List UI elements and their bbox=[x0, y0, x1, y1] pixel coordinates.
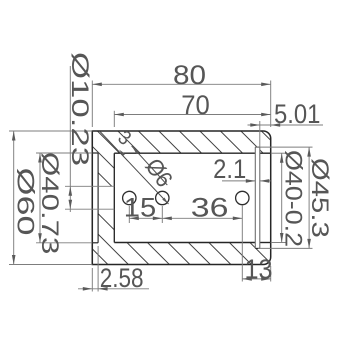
svg-text:70: 70 bbox=[181, 89, 210, 120]
dim line 2.58 bbox=[78, 288, 149, 290]
arrow 5.01 right (outside) bbox=[271, 123, 281, 127]
leader arrow lower end bbox=[162, 198, 168, 205]
dim line D45.3 bbox=[308, 147, 310, 248]
svg-text:Ø40-0.2: Ø40-0.2 bbox=[280, 150, 306, 247]
dim line 80 bbox=[92, 83, 270, 85]
ext line right face up bbox=[270, 81, 272, 128]
arrow D10.23 top bbox=[69, 186, 73, 196]
arrow 15 left bbox=[129, 217, 139, 221]
svg-text:2.58: 2.58 bbox=[100, 264, 144, 293]
second leader segment bbox=[132, 146, 168, 185]
arrow D45.3 bottom bbox=[307, 239, 311, 249]
part outer profile (80x60 section, rounded right corners) bbox=[92, 131, 270, 265]
ext line 2.58 left down bbox=[91, 268, 93, 292]
ext line hole A down bbox=[128, 206, 130, 223]
ext line D45.3 top bbox=[255, 146, 312, 148]
arrow D60 bottom bbox=[12, 255, 16, 265]
left end face bbox=[91, 131, 93, 265]
ext line D40.73 bottom bbox=[36, 242, 92, 244]
bore bottom line left of groove bbox=[114, 242, 255, 244]
ext line left face up bbox=[91, 81, 93, 128]
arrow D45.3 top bbox=[307, 147, 311, 157]
dim line 13 bbox=[242, 278, 270, 280]
section hatching bbox=[0, 124, 350, 270]
arrow 80 left bbox=[92, 83, 102, 87]
arrow 2.1 right (outside) bbox=[260, 179, 270, 183]
ext line D45.3 bottom bbox=[258, 247, 313, 249]
bore top line (D40) left of groove bbox=[114, 152, 255, 154]
ext line inner wall up bbox=[113, 111, 115, 127]
svg-text:5.01: 5.01 bbox=[274, 100, 320, 129]
ext line hole C down (to 13 dim) bbox=[241, 205, 243, 282]
ext line D60 top bbox=[9, 130, 92, 132]
dim line D60 bbox=[13, 131, 15, 265]
ext line D40.73 top bbox=[36, 152, 92, 154]
3x D6 holes seen in bore bbox=[123, 191, 136, 204]
ext line D40 bottom bbox=[271, 242, 287, 244]
dim line D10.23 bbox=[69, 66, 71, 212]
arrow 13 left bbox=[242, 277, 252, 281]
arrow D40.73 top bbox=[38, 153, 42, 163]
dim line 15 and 36 bbox=[129, 217, 242, 219]
dim line 2.1 left part bbox=[222, 180, 255, 182]
svg-text:Ø40.73: Ø40.73 bbox=[37, 152, 64, 254]
groove left wall bbox=[254, 147, 256, 248]
svg-text:15: 15 bbox=[124, 193, 156, 222]
dim line 5.01 bbox=[248, 124, 324, 126]
dim line D40-0.2 bbox=[281, 153, 283, 242]
leader arrow at bore edge bbox=[119, 150, 125, 157]
groove bottom bottom edge (D45.3) bbox=[255, 247, 259, 249]
svg-text:2.1: 2.1 bbox=[213, 155, 246, 184]
bore bottom line right of groove bbox=[260, 242, 271, 244]
arrow 70 left bbox=[114, 113, 124, 117]
arrow D40 top bbox=[280, 153, 284, 163]
groove right wall bbox=[259, 147, 261, 248]
arrow D40 bottom bbox=[280, 233, 284, 243]
arrow 36 right bbox=[233, 217, 243, 221]
second leader arrow bbox=[132, 146, 140, 154]
ext line D60 bottom bbox=[9, 264, 92, 266]
arrow D10.23 bottom bbox=[69, 200, 73, 210]
arrow 2.58 right (outside) bbox=[98, 287, 108, 291]
arrow D40.73 bottom bbox=[38, 233, 42, 243]
arrow D60 top bbox=[12, 131, 16, 141]
arrow 2.1 left (outside) bbox=[246, 179, 256, 183]
ext line D10.23 bottom bbox=[65, 208, 114, 210]
arrow 70 right bbox=[261, 113, 271, 117]
bore top line right of groove bbox=[260, 152, 271, 154]
recess bottom edge bbox=[92, 242, 98, 244]
svg-text:Ø45.3: Ø45.3 bbox=[306, 158, 333, 238]
ext line 13 right down bbox=[270, 266, 272, 282]
arrow 80 right bbox=[261, 83, 271, 87]
groove bottom top edge (D45.3) bbox=[255, 146, 259, 148]
arrow 15 right bbox=[153, 217, 163, 221]
arrow 13 right bbox=[261, 277, 271, 281]
ext line D40 top bbox=[271, 152, 287, 154]
left wall inner face bbox=[113, 153, 115, 242]
arrow 2.58 left (outside) bbox=[83, 287, 93, 291]
ext line 2.58 right down bbox=[97, 246, 99, 292]
dim line D40.73 bbox=[39, 153, 41, 243]
ext line D10.23 top bbox=[65, 185, 114, 187]
svg-text:13: 13 bbox=[244, 253, 272, 285]
arrow 5.01 left (outside) bbox=[250, 123, 259, 127]
recess top edge bbox=[92, 152, 98, 154]
recess bottom face (2.58 deep) bbox=[97, 153, 99, 243]
leader line through hole B bbox=[100, 132, 169, 205]
arrow 36 left bbox=[162, 217, 172, 221]
svg-text:Ø10.23: Ø10.23 bbox=[66, 52, 92, 166]
dim line 70 bbox=[114, 114, 270, 116]
svg-text:36: 36 bbox=[191, 193, 229, 223]
svg-text:80: 80 bbox=[173, 60, 206, 90]
svg-text:Ø60: Ø60 bbox=[12, 168, 39, 236]
dim line 2.1 right part bbox=[260, 180, 271, 182]
ext line groove right up (crosses top wall) bbox=[259, 121, 261, 147]
ext line hole B down bbox=[161, 206, 163, 223]
